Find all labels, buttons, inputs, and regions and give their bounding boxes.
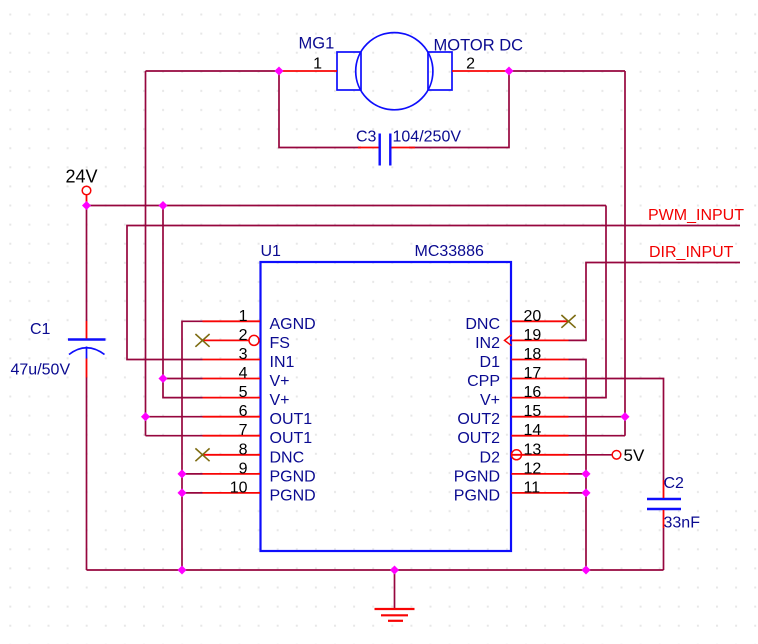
svg-text:V+: V+ (270, 373, 290, 390)
svg-text:IN2: IN2 (475, 335, 500, 352)
wire right vertical motor terminal 2 to OUT2 (624, 71, 626, 436)
pin 11 PGND (454, 479, 569, 504)
wire pin14 OUT2 (569, 435, 626, 437)
wire top rail right segment motor (509, 70, 625, 72)
wire pin10 PGND (182, 492, 203, 494)
wire C2 bottom to ground rail (663, 528, 665, 570)
capacitor C3 left plate (379, 134, 381, 166)
wire C3 left drop (279, 71, 361, 148)
svg-text:MC33886: MC33886 (415, 243, 484, 260)
junction motor2/C3 (504, 66, 513, 75)
svg-text:4: 4 (239, 365, 248, 382)
motor MG1 right brush rectangle (428, 52, 452, 90)
wire pin15 OUT2 (569, 416, 626, 418)
pin 20 DNC (465, 308, 568, 333)
capacitor C1 top pin (86, 321, 88, 339)
motor pin 2 stub (452, 70, 509, 72)
pin 12 PGND (454, 460, 569, 485)
junction pin6 OUT1 (141, 412, 150, 421)
pin 5 V+ (203, 384, 290, 409)
svg-text:15: 15 (524, 403, 542, 420)
svg-text:OUT2: OUT2 (457, 430, 500, 447)
wire pin7 OUT1 (146, 435, 203, 437)
svg-text:PWM_INPUT: PWM_INPUT (648, 207, 744, 224)
svg-text:C1: C1 (30, 321, 51, 338)
svg-text:V+: V+ (270, 392, 290, 409)
junction rail PGND right (581, 565, 590, 574)
junction rail ground (390, 565, 399, 574)
svg-text:OUT2: OUT2 (457, 411, 500, 428)
no-connect X pin 2 (195, 334, 209, 347)
capacitor C3 right plate (389, 134, 391, 166)
capacitor C2 bottom plate (647, 508, 681, 510)
svg-text:MG1: MG1 (299, 35, 335, 53)
motor MG1 circle (356, 33, 433, 110)
svg-text:1: 1 (313, 55, 322, 72)
svg-text:5V: 5V (624, 446, 645, 465)
svg-text:FS: FS (270, 335, 290, 352)
wire top rail left segment motor (146, 70, 280, 72)
svg-text:DNC: DNC (270, 449, 305, 466)
svg-text:OUT1: OUT1 (270, 430, 313, 447)
wire C3 right drop (409, 71, 509, 148)
capacitor C3 left pin (358, 147, 379, 149)
svg-text:D2: D2 (480, 449, 501, 466)
pin 3 IN1 (203, 346, 295, 371)
svg-text:MOTOR DC: MOTOR DC (434, 37, 524, 55)
svg-text:5: 5 (239, 384, 248, 401)
terminal 24V stub (86, 195, 88, 206)
svg-text:10: 10 (230, 479, 248, 496)
svg-text:C3: C3 (356, 129, 377, 146)
svg-text:1: 1 (239, 308, 248, 325)
svg-text:D1: D1 (480, 354, 501, 371)
wire pin13 D2 to 5V terminal (569, 454, 613, 456)
svg-text:PGND: PGND (270, 468, 316, 485)
svg-text:U1: U1 (261, 243, 282, 260)
svg-text:PGND: PGND (270, 487, 316, 504)
svg-text:7: 7 (239, 422, 248, 439)
capacitor C1 top plate (68, 338, 106, 340)
junction pin4 V+ (158, 374, 167, 383)
pin 19 IN2 with input arrow (475, 327, 568, 352)
junction 24V terminal (82, 201, 91, 210)
junction 24V rail V+ branch (158, 201, 167, 210)
svg-text:3: 3 (239, 346, 248, 363)
motor MG1 left brush rectangle (337, 52, 361, 90)
motor pin 1 stub (279, 70, 337, 72)
capacitor C2 top plate (647, 498, 681, 500)
wire D1 pin18 to ground rail (569, 360, 587, 571)
svg-text:2: 2 (239, 327, 248, 344)
svg-text:14: 14 (524, 422, 542, 439)
pin 18 D1 (480, 346, 569, 371)
pin 10 PGND (203, 479, 316, 504)
wire pin12 PGND (569, 473, 587, 475)
wire CPP pin17 to C2 (569, 379, 664, 481)
svg-text:OUT1: OUT1 (270, 411, 313, 428)
wire pin11 PGND (569, 492, 587, 494)
svg-text:2: 2 (466, 55, 475, 72)
pin 7 OUT1 (203, 422, 313, 447)
pin 13 D2 with inversion circle (480, 441, 569, 466)
pin 9 PGND (203, 460, 316, 485)
junction motor1/C3 (274, 66, 283, 75)
no-connect X pin 20 (561, 315, 575, 328)
wire DIR_INPUT net (569, 263, 741, 341)
wire pin4 V+ (163, 378, 203, 380)
wire C1 branch vertical (86, 206, 88, 571)
pin 1 AGND (203, 308, 316, 333)
svg-text:20: 20 (524, 308, 542, 325)
pin 17 CPP (467, 365, 568, 390)
wire left vertical motor terminal 1 to OUT1 (145, 71, 147, 436)
svg-text:DNC: DNC (465, 316, 500, 333)
svg-text:8: 8 (239, 441, 248, 458)
capacitor C2 top pin (663, 480, 665, 498)
pin 4 V+ (203, 365, 290, 390)
pin 16 V+ (480, 384, 569, 409)
wire 24V rail (87, 205, 607, 207)
pin 8 DNC (203, 441, 305, 466)
svg-text:47u/50V: 47u/50V (11, 362, 71, 379)
svg-text:IN1: IN1 (270, 354, 295, 371)
junction pin11 PGND (581, 488, 590, 497)
op-amp U1 MC33886 body (261, 262, 512, 551)
svg-text:CPP: CPP (467, 373, 500, 390)
junction pin15 OUT2 (620, 412, 629, 421)
wire PWM_INPUT net (127, 226, 740, 360)
svg-text:24V: 24V (66, 167, 98, 187)
capacitor C3 right pin (392, 147, 416, 149)
svg-text:33nF: 33nF (664, 515, 701, 532)
svg-text:19: 19 (524, 327, 542, 344)
svg-text:16: 16 (524, 384, 542, 401)
terminal 24V circle (82, 186, 91, 195)
svg-text:PGND: PGND (454, 487, 500, 504)
svg-text:V+: V+ (480, 392, 500, 409)
pin 15 OUT2 (457, 403, 568, 428)
svg-text:104/250V: 104/250V (393, 129, 462, 146)
wire AGND pin1 to ground rail (182, 321, 203, 570)
capacitor C1 bottom curved plate (69, 348, 105, 355)
pin 2 FS with inversion circle (203, 327, 290, 352)
svg-text:18: 18 (524, 346, 542, 363)
svg-text:9: 9 (239, 460, 248, 477)
junction pin12 PGND (581, 469, 590, 478)
svg-text:PGND: PGND (454, 468, 500, 485)
svg-text:C2: C2 (664, 475, 685, 492)
junction pin10 PGND (177, 488, 186, 497)
junction pin9 PGND (177, 469, 186, 478)
wire pin6 OUT1 (146, 416, 203, 418)
capacitor C1 bottom pin (86, 359, 88, 378)
svg-text:AGND: AGND (270, 316, 316, 333)
svg-text:17: 17 (524, 365, 542, 382)
wire ground rail bottom (87, 569, 664, 571)
svg-text:13: 13 (524, 441, 542, 458)
svg-text:DIR_INPUT: DIR_INPUT (649, 244, 734, 261)
wire V+ branch x163 (163, 206, 203, 398)
svg-text:11: 11 (524, 479, 541, 496)
capacitor C2 bottom pin (663, 510, 665, 528)
no-connect X pin 8 (195, 448, 209, 461)
terminal 5V circle (612, 451, 621, 460)
capacitor C1 bottom plate stem (86, 347, 88, 359)
ground symbol (375, 570, 415, 621)
wire pin9 PGND (182, 473, 203, 475)
pin 14 OUT2 (457, 422, 568, 447)
wire 24V rail drop to pin16 V+ (569, 206, 607, 398)
junction rail PGND left (177, 565, 186, 574)
pin 6 OUT1 (203, 403, 313, 428)
svg-text:12: 12 (524, 460, 542, 477)
svg-text:6: 6 (239, 403, 248, 420)
